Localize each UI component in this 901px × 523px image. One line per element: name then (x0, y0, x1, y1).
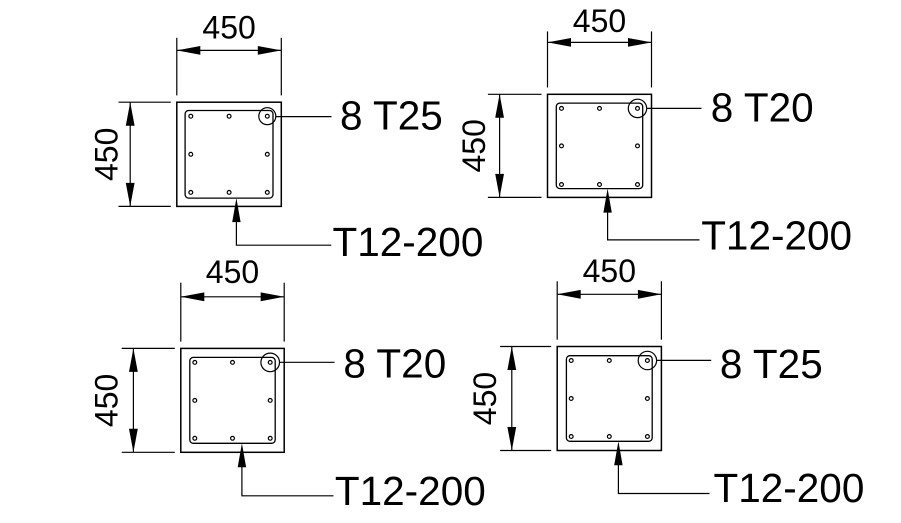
rebar bottom-right (A) (265, 191, 269, 195)
rebar bottom-mid (A) (227, 191, 231, 195)
top dimension arrow right (B) (628, 38, 652, 47)
stirrup leader line (D) (618, 463, 709, 493)
leader line to bar label (D) (657, 359, 712, 361)
rebar mid-left (B) (560, 144, 564, 148)
left dimension extension line top (B) (488, 93, 542, 95)
top dimension arrow left (B) (548, 38, 572, 47)
left dimension arrow bottom (A) (126, 183, 135, 207)
top dimension extension line right (C) (283, 283, 285, 342)
left dimension line (C) (132, 348, 134, 452)
left dimension arrow top (A) (126, 102, 135, 126)
rebar mid-left (D) (569, 397, 573, 401)
svg-text:8 T20: 8 T20 (343, 341, 446, 387)
left dimension arrow bottom (C) (129, 429, 138, 453)
rebar bottom-left (D) (569, 435, 573, 439)
left dimension arrow top (C) (129, 348, 138, 372)
top dimension extension line left (D) (556, 281, 558, 339)
top dimension line (A) (177, 49, 281, 51)
top dimension extension line left (B) (547, 31, 549, 87)
rebar top-mid (D) (607, 359, 611, 363)
svg-text:450: 450 (573, 3, 626, 39)
rebar mid-left (A) (189, 152, 193, 156)
rebar bottom-right (D) (646, 435, 650, 439)
svg-text:T12-200: T12-200 (333, 219, 484, 265)
left dimension arrow top (B) (495, 94, 504, 118)
stirrup leader arrow (B) (603, 189, 611, 213)
left dimension extension line bottom (B) (488, 196, 542, 198)
stirrup leader line (B) (608, 211, 700, 240)
top dimension extension line right (A) (280, 38, 282, 96)
rebar bottom-mid (C) (231, 436, 235, 440)
top dimension arrow right (C) (261, 292, 285, 301)
svg-text:T12-200: T12-200 (714, 465, 865, 511)
rebar mid-right (B) (636, 144, 640, 148)
svg-text:450: 450 (206, 254, 259, 290)
rebar mid-right (D) (646, 397, 650, 401)
column section A concrete outline (177, 102, 281, 206)
left dimension line (B) (499, 94, 501, 197)
top dimension arrow right (D) (638, 290, 662, 299)
rebar top-left (D) (569, 359, 573, 363)
top dimension arrow left (A) (177, 46, 201, 55)
rebar top-right (C) (268, 361, 272, 365)
top dimension arrow left (C) (181, 292, 205, 301)
left dimension extension line top (A) (119, 101, 171, 103)
stirrup leader line (A) (236, 220, 331, 245)
top dimension line (D) (557, 293, 661, 295)
rebar bottom-right (B) (636, 183, 640, 187)
left dimension extension line top (C) (122, 347, 175, 349)
rebar bottom-left (B) (560, 183, 564, 187)
svg-text:450: 450 (89, 374, 125, 427)
callout circle on corner rebar (C) (261, 353, 280, 372)
stirrup tie T12 (D) (566, 356, 652, 442)
leader line to bar label (B) (647, 107, 702, 109)
rebar top-right (A) (265, 114, 269, 118)
leader line to bar label (C) (280, 361, 335, 363)
top dimension extension line left (C) (180, 283, 182, 342)
svg-text:450: 450 (583, 253, 636, 289)
rebar top-left (B) (560, 107, 564, 111)
rebar bottom-left (C) (193, 436, 197, 440)
top dimension extension line right (D) (660, 281, 662, 339)
column section C concrete outline (181, 348, 284, 452)
top dimension arrow right (A) (258, 46, 282, 55)
left dimension extension line bottom (D) (500, 450, 551, 452)
column section D concrete outline (557, 347, 661, 451)
rebar top-mid (B) (598, 107, 602, 111)
top dimension extension line left (A) (176, 38, 178, 96)
rebar mid-left (C) (193, 399, 197, 403)
stirrup tie T12 (A) (185, 111, 273, 199)
rebar mid-right (A) (265, 152, 269, 156)
left dimension extension line bottom (A) (119, 205, 171, 207)
rebar top-left (C) (193, 361, 197, 365)
rebar bottom-left (A) (189, 191, 193, 195)
left dimension line (A) (129, 102, 131, 206)
stirrup leader arrow (A) (232, 198, 240, 222)
svg-text:8 T20: 8 T20 (711, 85, 814, 131)
stirrup leader arrow (D) (614, 441, 622, 465)
svg-text:T12-200: T12-200 (335, 468, 486, 514)
rebar top-right (D) (646, 359, 650, 363)
left dimension arrow top (D) (507, 347, 516, 371)
callout circle on corner rebar (B) (628, 99, 646, 117)
rebar bottom-mid (B) (598, 183, 602, 187)
column section B concrete outline (548, 94, 652, 197)
stirrup tie T12 (C) (190, 357, 275, 443)
rebar bottom-mid (D) (607, 435, 611, 439)
left dimension line (D) (511, 347, 513, 451)
left dimension arrow bottom (B) (495, 174, 504, 198)
rebar top-left (A) (189, 114, 193, 118)
rebar top-mid (A) (227, 114, 231, 118)
top dimension line (B) (548, 41, 652, 43)
stirrup leader line (C) (242, 465, 334, 496)
left dimension extension line bottom (C) (122, 451, 175, 453)
svg-text:8 T25: 8 T25 (340, 92, 443, 138)
rebar mid-right (C) (268, 399, 272, 403)
top dimension extension line right (B) (651, 31, 653, 87)
left dimension extension line top (D) (500, 346, 551, 348)
svg-text:450: 450 (467, 372, 503, 425)
svg-text:450: 450 (202, 9, 255, 45)
left dimension arrow bottom (D) (507, 427, 516, 451)
svg-text:8 T25: 8 T25 (720, 341, 823, 387)
stirrup tie T12 (B) (556, 103, 642, 189)
rebar bottom-right (C) (268, 436, 272, 440)
rebar top-mid (C) (231, 361, 235, 365)
rebar top-right (B) (636, 107, 640, 111)
top dimension arrow left (D) (557, 290, 581, 299)
callout circle on corner rebar (D) (638, 351, 656, 369)
svg-text:T12-200: T12-200 (701, 212, 852, 258)
callout circle on corner rebar (A) (259, 108, 276, 125)
svg-text:450: 450 (456, 119, 492, 172)
stirrup leader arrow (C) (238, 443, 246, 467)
svg-text:450: 450 (89, 128, 125, 181)
leader line to bar label (A) (276, 116, 332, 118)
top dimension line (C) (181, 296, 284, 298)
